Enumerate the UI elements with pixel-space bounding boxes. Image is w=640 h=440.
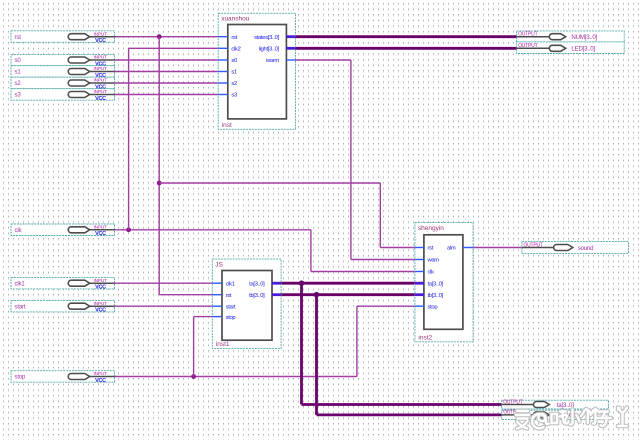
svg-text:INPUT: INPUT [93,278,107,284]
svg-text:states[3..0]: states[3..0] [254,35,279,41]
module block JS (inst1) [212,259,281,349]
wire s2 [115,82,219,84]
svg-text:ta[3..0]: ta[3..0] [249,281,265,287]
svg-text:stop: stop [226,315,236,321]
junction clk [126,227,131,232]
wire s0 [115,59,219,61]
svg-text:stop: stop [428,304,438,310]
svg-text:INPUT: INPUT [93,225,107,231]
xuanshou input stub s0 [218,59,228,61]
shengyin input stub warn [415,259,424,261]
svg-text:s3: s3 [231,93,237,99]
wire rst vertical down to JS rst [158,37,160,295]
xuanshou input stub s3 [218,94,228,96]
svg-text:clk2: clk2 [231,47,240,53]
output pin NUM [517,31,625,42]
input pin s2 [11,77,115,90]
svg-text:INPUT: INPUT [93,301,107,307]
svg-text:OUTPUT: OUTPUT [518,43,538,49]
svg-text:clk1: clk1 [226,281,235,287]
junction rst branch [157,181,162,186]
svg-text:clk1: clk1 [15,281,26,287]
svg-text:INPUT: INPUT [93,55,107,61]
JS input stub stop [212,316,222,318]
shengyin output stub alm [463,247,473,249]
shengyin input stub clk [415,271,424,273]
svg-text:clk: clk [15,228,23,234]
svg-text:inst: inst [222,122,232,129]
svg-text:warm: warm [265,58,279,64]
svg-text:s1: s1 [231,70,237,76]
svg-text:OUTPUT: OUTPUT [523,242,543,248]
xuanshou output stub light[3..0] [286,47,295,50]
xuanshou input stub rst [218,36,228,38]
svg-text:xuanshou: xuanshou [221,16,250,23]
junction stop [191,374,196,379]
wire s3 [115,94,219,96]
svg-text:s0: s0 [231,58,237,64]
svg-text:rst: rst [226,293,232,299]
input pin rst [11,31,115,44]
svg-text:LED[3..0]: LED[3..0] [571,46,595,53]
input pin stop [11,371,115,384]
input pin s0 [11,54,115,67]
svg-text:tb[3..0]: tb[3..0] [428,293,444,299]
svg-text:VCC: VCC [95,38,106,44]
svg-text:ta[3..0]: ta[3..0] [428,281,444,287]
svg-text:OUTPUT: OUTPUT [518,32,538,38]
svg-text:rst: rst [15,35,22,41]
wire rst pin to xuanshou rst [115,36,219,38]
input pin clk [11,224,115,237]
svg-text:s3: s3 [15,93,22,99]
JS output stub ta[3..0] [272,282,281,285]
svg-text:VCC: VCC [95,285,106,291]
junction rst at vertical [157,34,162,39]
input pin s3 [11,89,115,102]
svg-text:start: start [226,304,236,310]
input pin clk1 [11,277,115,290]
svg-text:start: start [15,304,26,310]
JS input stub clk1 [212,282,222,284]
svg-text:s0: s0 [15,58,22,64]
bus ta[3..0] JS to shengyin [281,282,415,285]
svg-text:s2: s2 [15,81,22,87]
output pin ta_out [502,399,609,409]
input pin start [11,300,115,313]
xuanshou output stub states[3..0] [286,35,295,38]
wire clk1 to JS clk1 [115,282,213,284]
output pin sound [522,242,629,254]
wire rst branch to shengyin rst [159,182,380,184]
bus light[3..0] to LED output [296,47,517,50]
svg-text:JS: JS [215,261,223,268]
svg-text:INPUT: INPUT [93,66,107,72]
xuanshou input stub s1 [218,71,228,73]
shengyin input stub rst [415,247,424,249]
module block xuanshou (inst) [218,13,295,129]
JS output stub tb[3..0] [272,293,281,296]
svg-text:INPUT: INPUT [93,371,107,377]
svg-text:tb[3..0]: tb[3..0] [249,293,265,299]
bus tb[3..0] JS to shengyin [281,293,415,296]
wire alm to sound output [473,247,522,249]
svg-text:s1: s1 [15,70,22,76]
svg-text:inst2: inst2 [418,334,432,341]
wire start to JS start [115,305,213,307]
wire clk pin [115,229,311,231]
wire s1 [115,71,219,73]
watermark (decorative) [516,408,627,429]
wire stop pin [115,376,357,378]
svg-text:OUTPUT: OUTPUT [503,399,523,405]
xuanshou output stub warm [286,59,295,61]
shengyin input stub stop [415,305,424,307]
svg-text:INPUT: INPUT [93,78,107,84]
svg-text:sound: sound [578,245,594,252]
svg-text:INPUT: INPUT [93,31,107,37]
svg-text:clk: clk [428,270,435,276]
svg-text:light[3..0]: light[3..0] [259,47,280,53]
svg-text:shengyin: shengyin [418,225,444,232]
wire stop to shengyin stop [356,306,358,376]
svg-text:INPUT: INPUT [93,89,107,95]
svg-text:rst: rst [231,35,237,41]
module block shengyin (inst2) [415,223,473,342]
svg-text:alm: alm [447,246,456,252]
svg-text:warn: warn [427,258,439,264]
wire clk down to shengyin clk [310,230,312,272]
junction tb bus [314,292,320,298]
svg-text:VCC: VCC [95,308,106,314]
svg-text:s2: s2 [231,81,237,87]
shengyin input stub ta[3..0] [415,282,424,285]
JS input stub rst [212,294,222,296]
bus ta branch to bottom output [300,283,303,404]
wire warm from xuanshou to shengyin warn [296,59,351,61]
output pin LED [517,42,625,54]
svg-text:VCC: VCC [95,231,106,237]
svg-text:rst: rst [428,246,434,252]
svg-text:VCC: VCC [95,378,106,384]
wire clk up to xuanshou clk2 [128,48,130,230]
wire stop up to JS stop [193,317,195,377]
xuanshou input stub clk2 [218,47,228,49]
svg-text:inst1: inst1 [216,341,230,348]
svg-text:stop: stop [15,375,27,381]
bus states[3..0] to NUM output [296,35,517,38]
xuanshou input stub s2 [218,82,228,84]
svg-text:NUM[3..0]: NUM[3..0] [571,34,597,41]
bus tb branch to bottom output [315,295,318,415]
shengyin input stub tb[3..0] [415,293,424,296]
junction ta bus [299,280,305,286]
input pin s1 [11,66,115,79]
output pin tb_out [502,410,609,420]
svg-text:VCC: VCC [95,96,106,102]
JS input stub start [212,305,222,307]
